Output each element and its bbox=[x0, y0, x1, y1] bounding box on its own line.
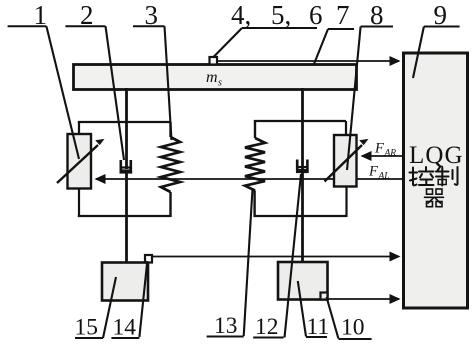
svg-text:12: 12 bbox=[255, 314, 279, 340]
svg-text:6: 6 bbox=[309, 0, 323, 30]
svg-text:LQG: LQG bbox=[409, 142, 464, 169]
svg-text:13: 13 bbox=[214, 313, 238, 339]
svg-text:10: 10 bbox=[341, 315, 365, 341]
svg-text:AR: AR bbox=[384, 149, 397, 159]
svg-text:4,: 4, bbox=[231, 0, 251, 30]
svg-text:m: m bbox=[206, 69, 218, 86]
svg-text:F: F bbox=[374, 141, 384, 157]
svg-text:s: s bbox=[218, 78, 222, 89]
svg-text:7: 7 bbox=[336, 0, 350, 30]
svg-text:AL: AL bbox=[378, 172, 390, 182]
svg-text:15: 15 bbox=[75, 315, 99, 341]
svg-text:F: F bbox=[368, 164, 378, 180]
svg-text:14: 14 bbox=[113, 315, 137, 341]
svg-text:5,: 5, bbox=[271, 0, 291, 30]
